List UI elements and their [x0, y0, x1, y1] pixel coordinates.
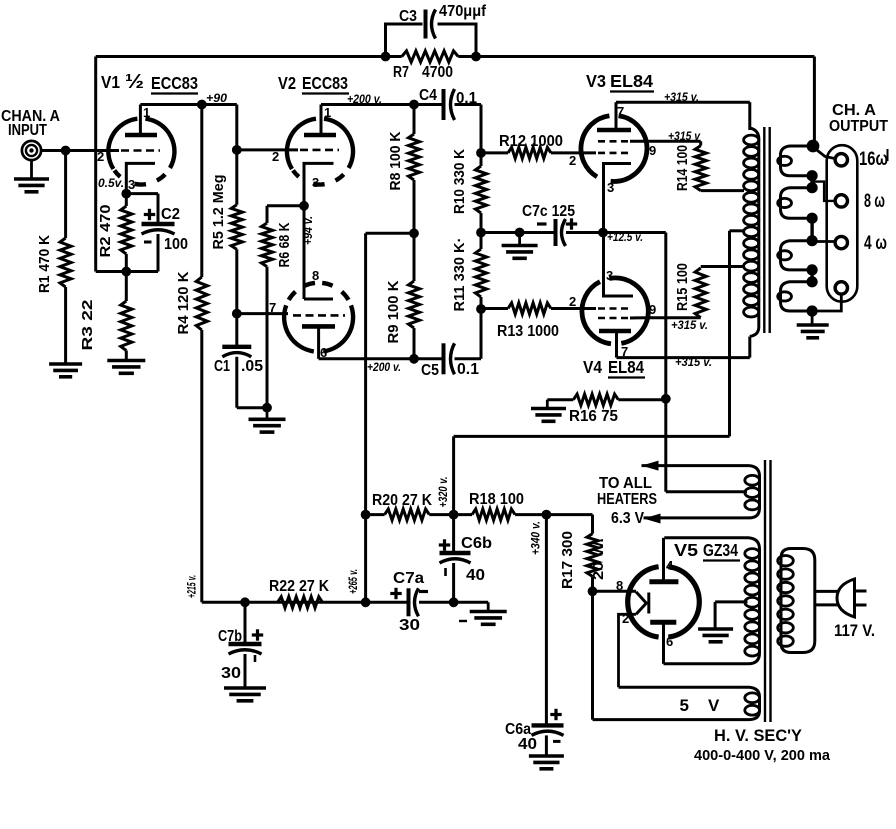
wire V4 plate to transformer	[617, 356, 750, 359]
capacitor C2	[142, 222, 175, 226]
wire V5 pin8 lead	[593, 590, 637, 593]
C7a minus sign	[419, 590, 428, 593]
wire C7a left lead	[366, 601, 409, 604]
svg-text:1: 1	[143, 105, 150, 120]
svg-text:+315 v.: +315 v.	[675, 355, 712, 369]
svg-text:20 W.: 20 W.	[590, 538, 607, 580]
svg-text:R18 100: R18 100	[469, 491, 524, 508]
output terminal 1	[835, 154, 847, 166]
node C7c ground junction	[515, 228, 525, 238]
C2 minus sign	[144, 241, 152, 244]
wire C1 bottom lead	[235, 357, 238, 408]
svg-text:R5 1.2 Meg: R5 1.2 Meg	[210, 175, 227, 250]
svg-text:6: 6	[666, 634, 673, 649]
wire C1 top lead	[235, 314, 238, 346]
wire C6b bottom lead	[452, 563, 455, 602]
wire feedback right drop to output	[813, 57, 816, 146]
wire V2 cathodes to V2b	[303, 206, 306, 299]
svg-text:V: V	[708, 696, 720, 715]
wire C7a right lead	[419, 601, 454, 604]
resistor R13	[508, 303, 551, 314]
svg-text:R7: R7	[393, 64, 409, 81]
tube V2a envelope	[324, 119, 353, 168]
wire C2 top lead	[157, 194, 160, 224]
wire junction b bar	[810, 218, 813, 241]
svg-text:TO ALL: TO ALL	[599, 475, 652, 492]
svg-text:2: 2	[97, 149, 104, 164]
wire V3 pin7 stem	[615, 102, 618, 130]
wire V4 pin9 screen lead	[630, 316, 647, 319]
svg-text:2: 2	[622, 611, 629, 626]
svg-text:+200 v.: +200 v.	[347, 92, 382, 106]
wire R9 top lead	[413, 233, 416, 281]
resistor R11	[475, 249, 486, 297]
wire junction c bar	[810, 270, 813, 282]
resistor R18	[472, 509, 515, 520]
resistor R16	[573, 394, 618, 405]
wire C5 right lead	[455, 357, 482, 360]
svg-text:1: 1	[324, 105, 331, 120]
node secondary bottom junction	[807, 305, 818, 316]
wire R12 left lead	[481, 151, 508, 154]
resistor R7	[402, 51, 458, 62]
wire R15 tap lead	[701, 265, 744, 268]
V2b grid dashed line	[293, 314, 345, 317]
wire V4 pin7 stem	[615, 331, 618, 358]
svg-text:16ω: 16ω	[859, 149, 888, 170]
wire R3 top lead	[125, 272, 128, 302]
node R20 left junction	[361, 510, 371, 520]
V5 top plate bar	[649, 579, 678, 584]
wire 8 ohm tap	[812, 182, 835, 201]
svg-text:R6 68 K: R6 68 K	[276, 222, 293, 267]
C7c plus sign	[566, 222, 577, 225]
svg-text:9: 9	[649, 143, 656, 158]
svg-text:8: 8	[616, 578, 623, 593]
wire V3 pin9 screen lead	[630, 140, 701, 143]
svg-text:30: 30	[399, 617, 420, 634]
wire R15 bottom to V4 screen	[647, 316, 701, 319]
svg-text:8: 8	[312, 268, 319, 283]
wire 6.3V winding top lead with arrow	[642, 464, 750, 467]
node R17 V5 junction	[588, 586, 598, 596]
svg-text:R13 1000: R13 1000	[497, 323, 559, 340]
V1 plate bar	[125, 133, 157, 138]
node C7a R22 junction	[361, 597, 371, 607]
svg-text:C7a: C7a	[393, 570, 424, 587]
wire 6.3V winding bottom lead with arrow	[644, 516, 750, 519]
tube V1 envelope	[145, 119, 174, 168]
wire C6a top lead	[545, 515, 548, 726]
resistor R1	[60, 238, 71, 287]
output secondary winding group 3	[781, 241, 811, 270]
wire R2 top lead	[125, 194, 128, 206]
output terminal strip	[827, 145, 858, 302]
wire C4 right lead	[455, 103, 482, 106]
wire 4 ohm tap	[812, 240, 835, 243]
resistor R5	[231, 205, 242, 250]
output transformer primary winding	[750, 128, 759, 337]
wire +265 column	[364, 233, 367, 602]
ground below input jack	[30, 160, 33, 179]
output transformer core	[763, 127, 765, 333]
resistor R10	[475, 166, 486, 213]
wire C6a bottom lead	[545, 735, 548, 756]
svg-text:ECC83: ECC83	[302, 73, 348, 93]
svg-text:+320 v.: +320 v.	[436, 477, 450, 508]
wire C6b top lead	[452, 515, 455, 553]
wire cathode node right	[603, 231, 666, 234]
wire R6 top	[267, 204, 304, 207]
capacitor C7a	[407, 588, 411, 616]
svg-text:R1 470 K: R1 470 K	[36, 235, 53, 293]
svg-text:4700: 4700	[422, 64, 453, 81]
C7c minus sign	[537, 222, 547, 225]
node secondary junction a1	[807, 170, 818, 181]
svg-text:V5: V5	[674, 540, 698, 560]
svg-text:4 ω: 4 ω	[864, 233, 887, 254]
resistor R20	[385, 509, 430, 520]
wire R8 top lead	[413, 105, 416, 135]
node R12 junction	[476, 148, 486, 158]
ground below output secondary	[811, 311, 814, 325]
V1 cathode	[126, 163, 155, 193]
svg-text:7: 7	[617, 104, 624, 119]
wire C7c left lead	[481, 231, 556, 234]
C7a plus sign	[390, 592, 401, 595]
node C1 R6 ground junction	[262, 403, 272, 413]
svg-text:R11 330 K·: R11 330 K·	[451, 238, 468, 312]
V3 cathode	[604, 164, 632, 233]
V3 screen dashed line	[598, 140, 630, 143]
node R10 R11 C7c junction	[476, 228, 486, 238]
node +320 junction	[449, 510, 459, 520]
wire cathode column to heater winding	[664, 399, 667, 492]
svg-text:3: 3	[607, 180, 614, 195]
svg-text:R17 300: R17 300	[559, 531, 576, 589]
svg-text:3: 3	[312, 175, 319, 190]
C6b plus sign	[439, 543, 450, 546]
wire R11 bottom lead	[480, 297, 483, 309]
V4 plate bar	[599, 329, 631, 334]
wire R8 bottom lead	[413, 180, 416, 233]
wire bottom rail left	[202, 601, 366, 604]
svg-text:+265 v.: +265 v.	[346, 569, 360, 594]
wire R14 top lead	[699, 141, 702, 145]
V2a plate bar	[304, 133, 336, 138]
wire R17 top lead	[591, 528, 594, 534]
resistor R14	[695, 146, 706, 191]
output secondary winding group 1	[781, 146, 811, 176]
capacitor C4	[442, 89, 446, 120]
svg-text:V2: V2	[278, 73, 296, 93]
svg-text:INPUT: INPUT	[8, 122, 47, 139]
wire R1 bottom lead	[64, 287, 67, 364]
output terminal 4	[835, 282, 847, 294]
wire V2b plate to C5	[319, 357, 444, 360]
svg-text:2: 2	[569, 153, 576, 168]
node V2 grid junction	[232, 145, 242, 155]
node secondary junction a2	[807, 182, 818, 193]
node C6b ground junction	[449, 597, 459, 607]
capacitor C3	[424, 10, 428, 39]
svg-text:117 V.: 117 V.	[834, 621, 875, 640]
wire C7b top lead	[244, 602, 247, 644]
wire R18 left lead	[454, 513, 473, 516]
svg-text:V3: V3	[586, 71, 606, 91]
node C7b junction	[240, 597, 250, 607]
capacitor C6a	[532, 723, 564, 727]
svg-text:7: 7	[269, 300, 276, 315]
node V2 cathodes R6 junction	[299, 201, 309, 211]
svg-text:C3: C3	[399, 8, 417, 25]
wire R5 top lead	[235, 150, 238, 205]
plug prong top	[855, 590, 867, 593]
wire R9 bottom lead	[413, 328, 416, 359]
wire primary bottom lead	[748, 337, 751, 358]
capacitor C5	[442, 343, 446, 374]
V2a grid dashed line	[300, 149, 339, 152]
ground below R1	[49, 362, 82, 366]
C7b plus sign	[252, 633, 263, 636]
wire R14 to primary tap	[701, 189, 744, 192]
svg-text:C4: C4	[419, 87, 437, 104]
tube V3 envelope	[611, 116, 647, 182]
tube V2b envelope	[284, 305, 314, 351]
V5 bottom plate bar	[650, 620, 676, 625]
wire R10 top lead	[480, 153, 483, 166]
input jack CHAN. A	[22, 141, 41, 160]
svg-text:GZ34: GZ34	[703, 540, 738, 560]
svg-text:HEATERS: HEATERS	[597, 491, 657, 508]
V3 plate bar	[597, 128, 631, 133]
output transformer primary center tap to B+	[730, 229, 745, 232]
ground below C6b	[487, 602, 490, 611]
wire R13 to V4 grid	[551, 307, 596, 310]
wire to R17 top	[546, 513, 592, 516]
svg-text:0.1: 0.1	[457, 361, 479, 378]
svg-text:R2 470: R2 470	[97, 205, 114, 258]
wire V5 pin2 to 5V winding top	[619, 614, 637, 687]
capacitor C6b	[440, 551, 471, 555]
wire 16 ohm tap	[813, 147, 836, 159]
node R8 R9 junction	[409, 228, 419, 238]
svg-text:8 ω: 8 ω	[864, 191, 885, 212]
wire V2b pin6 plate stem	[317, 326, 320, 358]
wire V5 pin6 stem	[662, 622, 665, 664]
svg-text:R12 1000: R12 1000	[499, 133, 563, 150]
wire R18 right lead	[515, 513, 546, 516]
resistor R22	[278, 597, 323, 608]
wire plug top lead	[815, 590, 838, 593]
wire R11 top lead	[480, 233, 483, 250]
output secondary winding group 4	[781, 282, 811, 311]
svg-text:100: 100	[164, 236, 188, 253]
svg-text:CH. A: CH. A	[832, 102, 876, 119]
V1 grid dashed line	[121, 149, 160, 152]
wire R2 bottom lead	[125, 254, 128, 272]
wire R6 bottom lead	[266, 267, 269, 408]
node V2b grid junction	[232, 309, 242, 319]
svg-text:R3 22: R3 22	[79, 300, 96, 351]
node secondary junction c1	[807, 264, 818, 275]
svg-text:2: 2	[569, 294, 576, 309]
wire R20 left lead	[366, 513, 385, 516]
svg-text:5: 5	[680, 696, 689, 715]
C2 plus sign	[144, 213, 155, 216]
svg-text:0.5v.: 0.5v.	[98, 176, 124, 190]
power transformer 117V primary winding	[781, 549, 815, 653]
plug prong bottom	[855, 604, 867, 607]
capacitor C7b	[229, 642, 262, 646]
svg-text:+340 v.: +340 v.	[529, 521, 543, 555]
power transformer HV winding	[664, 538, 760, 664]
svg-text:EL84: EL84	[610, 71, 653, 91]
wire R3 bottom lead	[125, 351, 128, 361]
wire R16 left lead	[547, 398, 573, 401]
svg-text:470μμf: 470μμf	[439, 3, 487, 20]
V2b plate bar	[302, 324, 335, 329]
svg-text:ECC83: ECC83	[151, 73, 198, 93]
node secondary junction b1	[807, 213, 818, 224]
wire input to V1 grid	[41, 149, 119, 152]
wire junction a bar	[810, 176, 813, 188]
wire B+ rail	[454, 435, 730, 438]
V2a cathode	[304, 163, 334, 205]
svg-text:R9 100 K: R9 100 K	[385, 280, 402, 343]
node R7 left junction	[381, 52, 391, 62]
svg-text:+90: +90	[206, 91, 227, 105]
svg-text:9: 9	[649, 302, 656, 317]
node R4 top junction	[197, 100, 207, 110]
wire R10 bottom lead	[480, 213, 483, 233]
V5 filament	[636, 592, 646, 614]
node R18 right junction	[542, 510, 552, 520]
wire cathode node to R2/C2	[126, 192, 158, 195]
svg-text:.05: .05	[241, 358, 263, 375]
node secondary junction c2	[807, 276, 818, 287]
ground below C7b	[224, 686, 266, 690]
wire V1 plate to +90 rail	[140, 103, 236, 106]
wire to V2b grid pin7	[237, 312, 288, 315]
svg-text:R4 120 K: R4 120 K	[175, 271, 192, 334]
power transformer 6.3V winding	[749, 466, 760, 518]
svg-text:C5: C5	[421, 362, 439, 379]
wire C7b bottom lead	[244, 654, 247, 688]
wire plug bottom lead	[815, 603, 838, 606]
node R13 junction	[476, 304, 486, 314]
output secondary winding group 2	[781, 188, 811, 219]
power transformer 5V winding	[619, 687, 760, 719]
svg-text:C1: C1	[214, 358, 230, 375]
svg-text:C7b: C7b	[218, 628, 242, 645]
svg-text:EL84: EL84	[608, 357, 644, 377]
svg-text:+315 v.: +315 v.	[671, 318, 708, 332]
svg-text:4: 4	[666, 558, 674, 573]
svg-text:+94 v.: +94 v.	[301, 216, 315, 245]
wire R20 right lead	[429, 513, 453, 516]
wire R4 top lead	[200, 105, 203, 278]
wire V3 plate to transformer	[616, 101, 750, 104]
wire R17 node to 5V winding bottom	[591, 591, 594, 719]
wire to ground bottom	[454, 601, 489, 604]
power transformer core	[764, 460, 766, 722]
resistor R8	[408, 134, 419, 180]
ground at R16	[546, 400, 549, 409]
svg-text:R8 100 K: R8 100 K	[387, 131, 404, 190]
wire HV center tap	[715, 600, 747, 603]
resistor R12	[508, 147, 551, 158]
output terminal 2	[835, 195, 847, 207]
ground dash mark	[459, 620, 467, 622]
node input R1 junction	[61, 146, 71, 156]
C6b minus tick	[444, 568, 447, 576]
ground below C1 R6	[266, 408, 269, 420]
wire feedback line left segment	[96, 55, 402, 58]
wire bottom terminal to ground node	[812, 294, 841, 312]
ground below R3	[107, 359, 145, 363]
V4 grid dashed line	[598, 307, 630, 310]
node R9 C5 junction	[409, 354, 419, 364]
tube V5 envelope	[668, 567, 699, 637]
ground below C7c	[518, 233, 521, 246]
capacitor C1	[222, 345, 251, 349]
wire feedback to cathode bottom	[94, 57, 97, 272]
node R7 right junction	[471, 52, 481, 62]
C6a plus sign	[550, 713, 561, 716]
resistor R2	[121, 206, 132, 254]
svg-text:2: 2	[272, 149, 279, 164]
svg-text:6.3 V: 6.3 V	[611, 510, 644, 527]
node 16 ohm feedback junction	[807, 140, 820, 153]
wire C3 loop	[386, 24, 423, 57]
V4 screen dashed line	[598, 317, 630, 320]
tube V4 envelope	[609, 278, 648, 343]
svg-text:+215 v.: +215 v.	[185, 575, 199, 598]
V3 grid dashed line	[598, 152, 630, 155]
node V1 cathode junction	[121, 189, 131, 199]
svg-text:R22 27 K: R22 27 K	[269, 578, 330, 595]
wire +90 rail corner down to V2 grid	[235, 105, 238, 150]
wire R16 right lead	[618, 398, 666, 401]
svg-text:C2: C2	[161, 206, 180, 223]
resistor R9	[408, 281, 419, 328]
wire V2a plate to +200 rail	[321, 103, 444, 106]
117V plug body	[837, 579, 855, 617]
svg-text:40: 40	[518, 736, 537, 753]
svg-text:R20 27 K: R20 27 K	[372, 492, 433, 509]
V2b cathode	[304, 298, 333, 301]
wire R5 bottom lead	[235, 249, 238, 313]
C6a minus sign	[553, 740, 561, 743]
svg-text:OUTPUT: OUTPUT	[829, 118, 888, 135]
svg-text:40: 40	[466, 567, 485, 584]
output terminal 3	[835, 236, 847, 248]
svg-text:+200 v.: +200 v.	[367, 360, 401, 374]
svg-text:400-0-400 V, 200 ma: 400-0-400 V, 200 ma	[694, 747, 831, 764]
node R16 junction	[661, 394, 671, 404]
V4 cathode	[604, 233, 634, 297]
wire V5 pin4 stem	[662, 538, 665, 582]
svg-text:V4: V4	[583, 357, 602, 377]
ground below C6a	[529, 754, 564, 758]
wire R1 top lead	[64, 151, 67, 239]
wire R4 bottom lead	[200, 330, 203, 602]
svg-text:3: 3	[606, 268, 613, 283]
wire to V2 grid	[237, 148, 298, 151]
resistor R6	[261, 223, 272, 267]
svg-text:+315 v: +315 v	[668, 129, 701, 143]
